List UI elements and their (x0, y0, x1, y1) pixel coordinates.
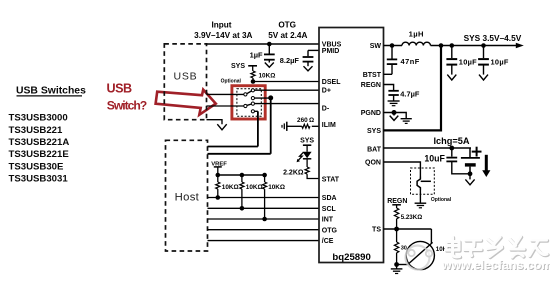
svg-text:OTG: OTG (322, 227, 338, 234)
wire R3 to STAT pin (307, 174, 319, 178)
node TS bottom junction (394, 262, 399, 267)
wire switch to chip D- (255, 103, 319, 105)
resistor R4 10K SDA pullup (216, 175, 220, 198)
svg-text:PMID: PMID (322, 48, 340, 55)
wire DSEL to chip (253, 81, 319, 83)
svg-text:SYS: SYS (231, 63, 245, 70)
wire PMID stub (308, 49, 319, 51)
svg-text:SYS 3.5V–4.5V: SYS 3.5V–4.5V (464, 33, 522, 43)
svg-text:Ichg=5A: Ichg=5A (434, 136, 470, 146)
wire host D+ vertical drop (270, 98, 272, 154)
wire TS bottom to thermistor (397, 264, 409, 266)
switch pole contact 1 (244, 93, 247, 96)
node SW bootstrap junction (390, 43, 395, 48)
resistor R5 10K SCL pullup (240, 175, 244, 208)
svg-text:5V at 2.4A: 5V at 2.4A (268, 31, 307, 40)
svg-text:8.2µF: 8.2µF (280, 56, 300, 65)
svg-text:10KΩ: 10KΩ (259, 73, 276, 80)
svg-text:REGN: REGN (387, 198, 407, 205)
ground below C1 (arrow style) (265, 63, 274, 68)
svg-text:USB Switches: USB Switches (16, 85, 86, 96)
resistor R7 5.23K (394, 208, 398, 219)
wire inductor output down to SYS pin (384, 46, 442, 131)
switch throw contact D+ host (251, 97, 254, 100)
battery plus sign (472, 147, 482, 157)
node PGND junction (392, 110, 397, 115)
svg-text:Optional: Optional (221, 78, 242, 84)
optional switch dashed box (237, 89, 261, 117)
svg-text:D-: D- (322, 105, 330, 112)
node SYS cap1 junction (450, 43, 455, 48)
switch blade 1 (247, 91, 252, 94)
node host D+ junction (268, 95, 273, 100)
ground below battery (arrow style) (465, 174, 474, 185)
LED D1 status (297, 152, 312, 162)
svg-text:1µH: 1µH (409, 29, 424, 38)
svg-text:10uF: 10uF (424, 154, 445, 164)
svg-text:REGN: REGN (361, 82, 381, 89)
svg-text:Optional: Optional (431, 197, 452, 203)
svg-text:5.23KΩ: 5.23KΩ (401, 214, 423, 221)
svg-text:QON: QON (365, 160, 381, 167)
wire R7 to TS node (396, 219, 398, 229)
switch blade 2 (247, 104, 252, 105)
red annotation text USB Switch? (107, 82, 147, 113)
wire host D- horizontal to Host box (208, 146, 258, 148)
wire LED to resistor (306, 159, 308, 167)
node battery bottom junction (468, 171, 473, 176)
ground at PGND dot (arrow style) (390, 113, 399, 121)
ground below C2 (arrow style) (304, 66, 313, 71)
svg-text:260 Ω: 260 Ω (297, 117, 314, 124)
node VREF rail junction 2 (240, 173, 245, 178)
ground right of PGND (bar style) (401, 119, 412, 124)
capacitor C3 47nF bootstrap (387, 46, 397, 75)
wire BTST pin (384, 73, 393, 75)
left column heading USB Switches (16, 85, 86, 96)
resistor R3 2.2K STAT (305, 167, 309, 174)
resistor R6 10K INT pullup (263, 175, 267, 219)
wire SCL host to chip (208, 207, 320, 209)
ground below TS divider (bar style) (391, 265, 403, 274)
ground below FET (bar style) (415, 203, 427, 208)
node SYS cap2 junction (481, 43, 486, 48)
VREF power tap (211, 161, 227, 175)
wire ILIM left segment (287, 125, 301, 127)
switch throw contact D+ charger (251, 89, 254, 92)
svg-text:2.2KΩ: 2.2KΩ (283, 169, 304, 176)
red block arrow pointing at switch (156, 90, 216, 115)
node R5 to SCL junction (240, 206, 245, 211)
optional FET dashed box (411, 168, 435, 194)
red highlight box around switch (232, 86, 265, 119)
node VREF rail junction 1 (216, 173, 221, 178)
wire R1 to DSEL node (252, 78, 254, 82)
svg-text:BTST: BTST (363, 72, 382, 79)
wire switch to chip D+ (255, 89, 319, 91)
svg-text:INT: INT (322, 217, 334, 224)
svg-text:10KΩ: 10KΩ (268, 184, 285, 191)
svg-text:BAT: BAT (367, 146, 382, 153)
SYS power tap for DSEL pullup (231, 63, 257, 71)
wire inductor to SYS rail (431, 45, 517, 47)
switch pole contact 2 (244, 104, 247, 107)
node R6 to INT junction (262, 217, 267, 222)
watermark logo circles over thermistor (406, 246, 433, 270)
capacitor C4 4.7uF REGN (388, 91, 398, 101)
svg-text:TS3USB3031: TS3USB3031 (9, 174, 69, 185)
svg-text:ILIM: ILIM (322, 122, 336, 129)
REGN power tap for TS divider (387, 198, 407, 208)
svg-text:D+: D+ (322, 88, 331, 95)
transistor Q1 optional QON FET (417, 177, 431, 191)
svg-text:Input: Input (211, 21, 231, 30)
wire TS pin rail (384, 228, 432, 230)
USB connector dashed box (164, 44, 206, 120)
switch throw contact D- host (251, 110, 254, 113)
ground below C4 (bar style) (388, 101, 400, 106)
capacitor C2 8.2uF (303, 50, 314, 66)
svg-text:USB: USB (107, 82, 132, 96)
svg-text:TS3USB3000: TS3USB3000 (9, 113, 68, 124)
svg-text:TS3USB221A: TS3USB221A (9, 137, 70, 148)
SYS rail arrowhead (516, 43, 524, 48)
svg-text:TS3USB221: TS3USB221 (9, 125, 64, 136)
capacitor C6 10uF SYS 2 (478, 46, 489, 75)
wire /CE host to chip (208, 240, 320, 242)
wire USB shield to ground (207, 120, 223, 125)
svg-text:10µF: 10µF (491, 57, 509, 66)
svg-text:USB: USB (174, 71, 198, 83)
node DSEL junction (251, 79, 256, 84)
svg-text:SYS: SYS (367, 128, 381, 135)
wire BAT pin rail (384, 147, 472, 149)
capacitor C7 10uF BAT (446, 148, 470, 174)
node TS junction (394, 227, 399, 232)
svg-text:Switch?: Switch? (107, 98, 147, 112)
wire USB D+ into switch (207, 93, 244, 95)
wire ILIM right segment to chip (312, 125, 319, 127)
ground ILIM (sideways bars) (282, 122, 287, 131)
wire USB D- into switch (207, 105, 244, 107)
SYS power tap for STAT LED (300, 138, 314, 152)
thermistor RT1 10K NTC (406, 241, 434, 269)
svg-text:SCL: SCL (322, 206, 337, 213)
watermark url text (441, 258, 550, 273)
ground USB shield (arrow style) (217, 124, 226, 130)
svg-text:47nF: 47nF (401, 57, 420, 66)
svg-text:SDA: SDA (322, 195, 337, 202)
svg-text:bq25890: bq25890 (332, 252, 370, 263)
node VREF rail junction 3 (262, 173, 267, 178)
svg-text:TS3USB221E: TS3USB221E (9, 149, 70, 160)
ground below C5 (arrow style) (447, 75, 456, 80)
resistor R1 10K DSEL pullup (251, 71, 255, 78)
svg-text:10µF: 10µF (459, 57, 477, 66)
Host connector dashed box (166, 140, 208, 251)
capacitor C1 1uF (264, 44, 275, 63)
watermark CJK brand strokes (446, 237, 548, 258)
wire host D+ horizontal to Host box (208, 153, 271, 155)
svg-text:www.elecfans.com: www.elecfans.com (441, 258, 550, 272)
wire VBUS input rail (207, 43, 320, 45)
svg-text:1µF: 1µF (250, 51, 263, 60)
svg-text:TS3USB30E: TS3USB30E (9, 161, 65, 172)
battery current arrow (482, 155, 490, 177)
svg-text:OTG: OTG (278, 21, 296, 30)
wire INT host to chip (208, 218, 320, 220)
svg-text:SW: SW (370, 43, 382, 50)
resistor R2 260ohm ILIM (302, 124, 310, 128)
wire TS to thermistor top (430, 229, 432, 243)
op-amp U1 bq25890 charger IC body (319, 28, 384, 263)
svg-text:Host: Host (175, 191, 200, 203)
svg-text:4.7µF: 4.7µF (400, 90, 420, 99)
battery BT1 (461, 148, 480, 174)
svg-text:SYS: SYS (300, 138, 314, 145)
node inductor output junction (439, 43, 444, 48)
capacitor C5 10uF SYS 1 (446, 46, 457, 75)
wire FET source to ground (419, 190, 421, 203)
wire SW pin to inductor (384, 45, 403, 47)
svg-text:10KΩ: 10KΩ (246, 184, 263, 191)
node OTG tap junction (267, 42, 272, 47)
wire OTG host to chip (208, 229, 320, 231)
node BAT cap junction (449, 146, 454, 151)
ground below C6 (arrow style) (479, 75, 488, 80)
wire QON pin (384, 162, 421, 177)
wire PGND pin (384, 113, 407, 119)
svg-text:3.9V–14V at 3A: 3.9V–14V at 3A (194, 31, 252, 40)
svg-text:10KΩ: 10KΩ (222, 184, 239, 191)
svg-text:TS: TS (372, 227, 381, 234)
switch throw contact D- charger (251, 102, 254, 105)
svg-text:PGND: PGND (361, 110, 381, 117)
wire host D+ tap (255, 97, 271, 99)
node R4 to SDA junction (216, 195, 221, 200)
svg-text:/CE: /CE (322, 238, 334, 245)
inductor L1 1uH (402, 42, 430, 45)
wire host D- tap (255, 110, 258, 112)
wire VREF rail (218, 174, 265, 176)
wire REGN pin (384, 85, 394, 91)
wire SDA host to chip (208, 197, 320, 199)
wire host D- vertical drop (257, 111, 259, 146)
resistor R8 30.31K TS (394, 229, 398, 265)
svg-text:DSEL: DSEL (322, 79, 341, 86)
svg-text:STAT: STAT (322, 176, 340, 183)
